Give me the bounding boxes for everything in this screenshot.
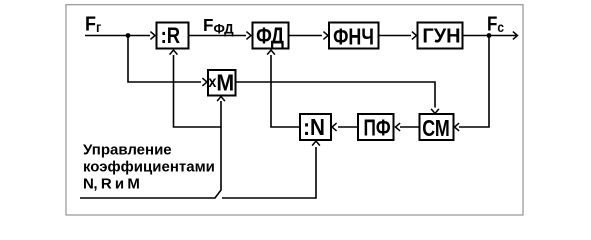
svg-text:Fс: Fс [487,12,504,35]
svg-text:Fг: Fг [85,14,102,36]
svg-text:коэффициентами: коэффициентами [83,159,215,176]
svg-text:СМ: СМ [422,116,450,142]
svg-text:FФД: FФД [203,15,234,37]
svg-text:Управление: Управление [83,142,172,159]
svg-text:ГУН: ГУН [422,26,460,48]
svg-text:ФНЧ: ФНЧ [333,24,374,50]
svg-text:N, R и М: N, R и М [83,176,139,193]
svg-text:ПФ: ПФ [363,116,390,141]
svg-text::R: :R [161,25,181,49]
svg-text::N: :N [303,114,325,141]
svg-text:ФД: ФД [256,24,284,49]
